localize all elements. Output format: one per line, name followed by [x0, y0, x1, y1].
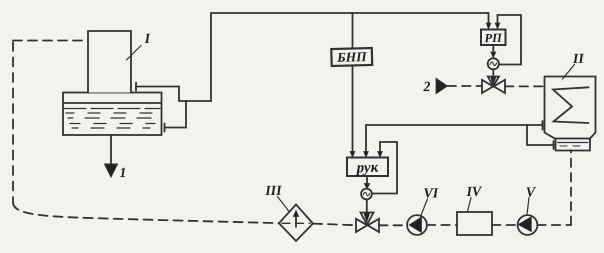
wire: jog to main riser: [179, 100, 211, 102]
wire: actuator to valve (RP): [492, 69, 494, 76]
bottom tank liquid: [558, 142, 589, 144]
tick upper stub: [135, 83, 137, 91]
control valve (under RUK) bowtie: [356, 219, 367, 232]
svg-text:БНП: БНП: [336, 49, 367, 65]
svg-text:II: II: [572, 52, 585, 67]
label I leader: [127, 46, 142, 61]
svg-text:РП: РП: [484, 31, 503, 45]
label II leader: [563, 65, 575, 80]
evaporator II sigma coil: [553, 87, 589, 123]
wire: boiler upper stub to riser: [136, 87, 179, 102]
wire: dashed valve to pump VI: [379, 224, 407, 226]
arrow into RUK pin3: [378, 152, 383, 158]
arrow into RP pin2: [495, 23, 500, 29]
label IV leader: [468, 198, 472, 212]
wire: RP feedback loop: [498, 15, 522, 65]
svg-text:IV: IV: [465, 185, 483, 200]
wire: RUK to actuator: [366, 176, 368, 184]
evaporator II bottom tank: [556, 139, 591, 151]
svg-text:2: 2: [422, 80, 430, 95]
wire: top main line: [211, 12, 489, 14]
wire: dashed pump V to corner: [537, 224, 571, 226]
pump V rotor: [518, 217, 531, 232]
filter III diamond: [279, 205, 313, 242]
valve top triangle (RP): [488, 77, 499, 87]
block RUK: [347, 158, 388, 177]
label V leader: [527, 198, 529, 215]
boiler I liquid level: [64, 102, 161, 104]
block BNP: [331, 48, 372, 66]
evaporator II outline: [545, 77, 596, 140]
svg-text:III: III: [264, 184, 282, 199]
wire: dashed return line left vertical: [12, 42, 14, 203]
actuator circle (RUK): [361, 189, 372, 200]
pump VI rotor: [409, 217, 421, 233]
valve stem arrow (filled): [364, 213, 370, 222]
wire: top line arrow into RP pin1: [488, 13, 490, 24]
svg-text:рук: рук: [354, 160, 378, 177]
valve stem arrow (RP): [491, 77, 496, 84]
block RP: [481, 30, 506, 46]
wire: dashed pump VI to box IV: [427, 224, 457, 226]
wire: RUK pin2 drop: [365, 125, 367, 152]
tick into bottom tank: [553, 141, 555, 149]
wire: line y125 from RUK corner to evaporator II: [366, 124, 543, 126]
wire: branch down to bottom tank of II: [527, 125, 554, 145]
wire: dashed return line top-left horizontal into boiler chimney: [13, 40, 88, 42]
svg-text:I: I: [144, 32, 151, 47]
arrow into actuator (RP): [491, 52, 496, 57]
svg-text:1: 1: [119, 166, 126, 181]
wire: dashed valve to evaporator II: [505, 85, 544, 87]
wire: dashed riser to bottom tank of II: [570, 151, 572, 226]
boiler outlet pipe: [110, 135, 112, 164]
outlet arrow 1: [105, 164, 118, 177]
wire: RP to actuator: [492, 45, 494, 53]
wire: dashed return line bottom curve to filter III: [13, 203, 279, 223]
boiler I body: [63, 93, 162, 136]
valve top triangle: [361, 213, 374, 225]
wire: dashed 2 to valve: [448, 85, 483, 87]
wire: RUK feedback loop: [372, 142, 397, 194]
pump VI circle: [407, 215, 427, 235]
label VI leader: [421, 199, 428, 217]
wire: dashed filter III to valve: [313, 224, 356, 226]
boiler I chimney: [88, 31, 131, 93]
pump V circle: [518, 215, 538, 235]
boiler I liquid hatch: [64, 108, 160, 110]
wire: drop from top line through BNP to RUK: [352, 13, 354, 49]
filter III dashes inside: [282, 222, 310, 224]
wire: main riser: [210, 13, 212, 101]
feed arrow 2 (filled triangle): [436, 78, 448, 93]
arrow into RUK pin1: [350, 152, 355, 158]
svg-text:V: V: [526, 185, 537, 200]
arrow into actuator: [364, 184, 369, 189]
control valve (RP) bowtie: [482, 80, 493, 93]
tick into evaporator side: [542, 121, 544, 130]
arrow into RUK pin2: [364, 152, 369, 158]
tick lower stub: [164, 124, 166, 132]
svg-text:VI: VI: [423, 186, 439, 201]
wire: boiler lower stub: [165, 101, 187, 128]
wire: dashed box IV to pump V: [492, 224, 518, 226]
actuator circle (RP): [488, 58, 499, 69]
wire: actuator to valve: [366, 199, 368, 212]
heater box IV: [457, 212, 492, 235]
filter III inner arrow: [295, 216, 297, 228]
label III leader: [278, 197, 290, 212]
